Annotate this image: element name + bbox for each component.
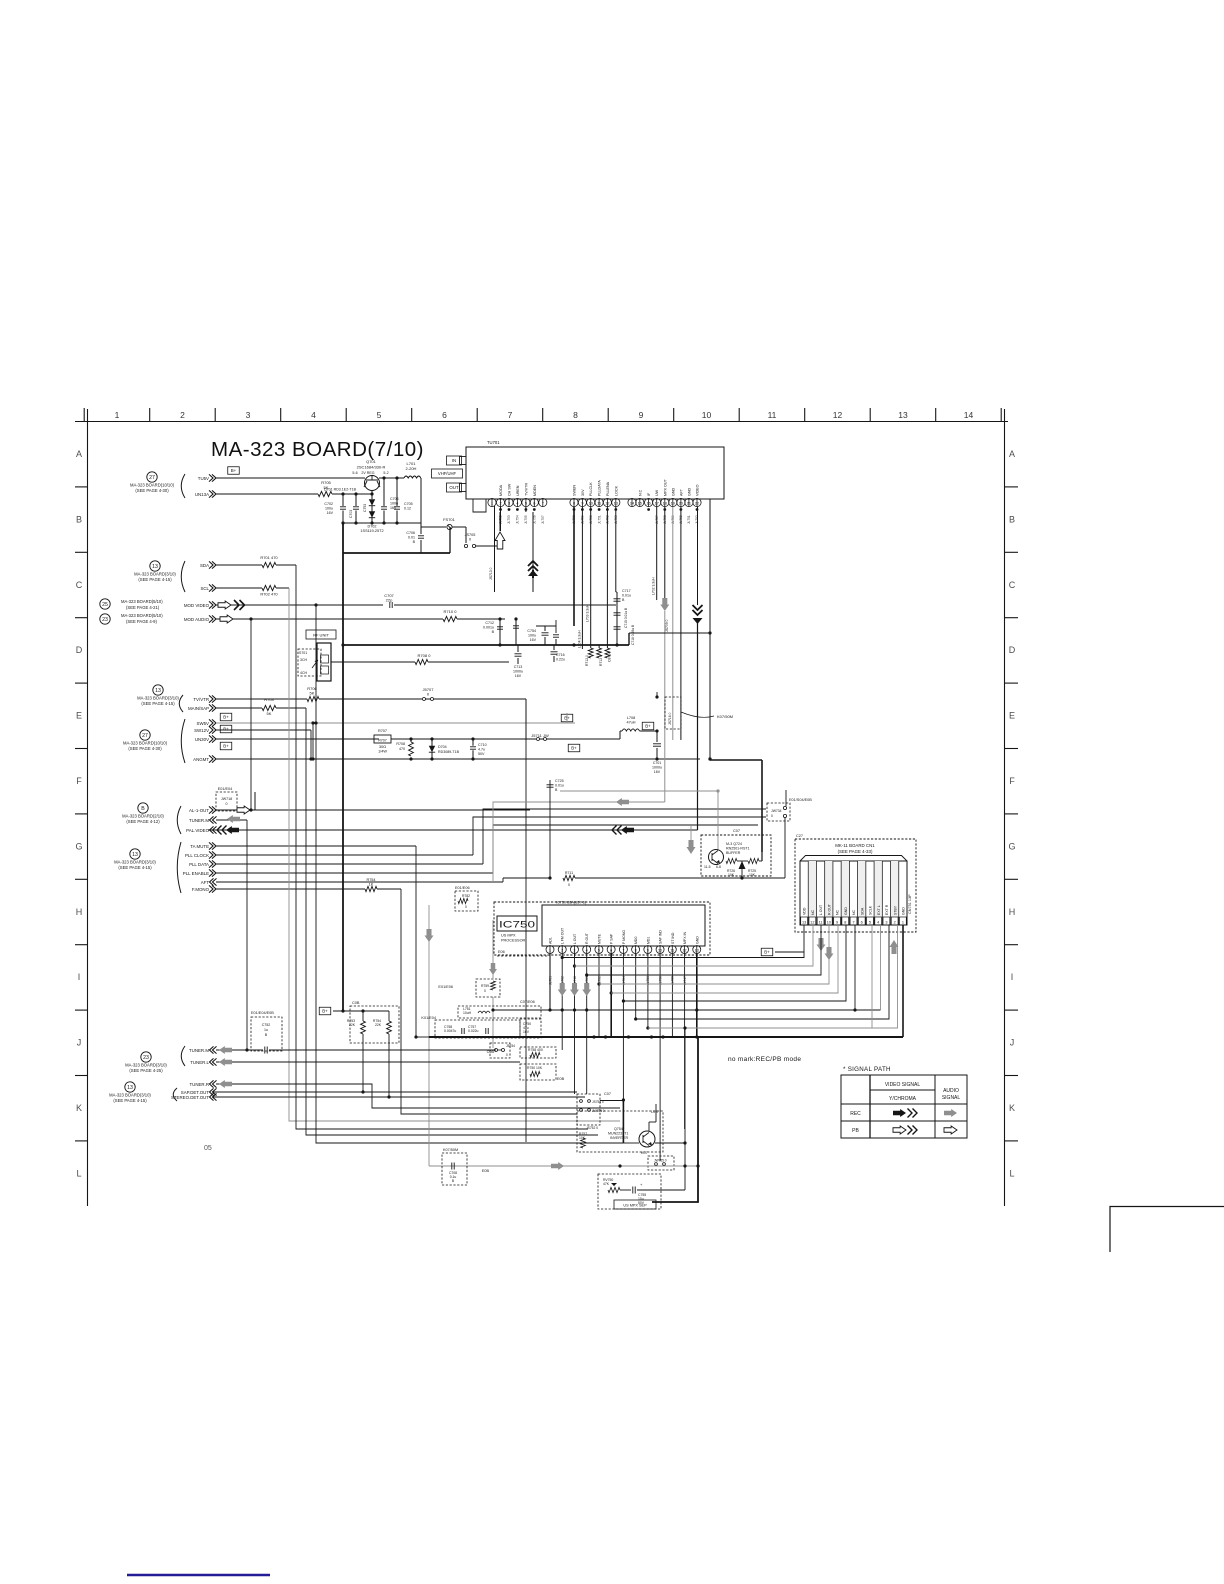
wire tuner pin9 drop [581, 507, 583, 649]
svg-text:A: A [76, 449, 82, 459]
wire TV/VTR drop [525, 699, 527, 740]
tuner TU701 pin 17 [653, 498, 661, 506]
svg-text:R708 0: R708 0 [418, 653, 432, 658]
svg-text:D: D [76, 645, 83, 655]
audio arrow on MOD AUDIO [220, 615, 233, 623]
svg-text:D702: D702 [367, 525, 376, 529]
tuner TU701 pin 6 [530, 498, 538, 506]
svg-text:(SEE PAGE 4-9): (SEE PAGE 4-9) [126, 619, 157, 624]
svg-text:9: 9 [836, 920, 838, 924]
wire tuner pin13 drop [615, 507, 617, 592]
svg-text:0.0047u: 0.0047u [444, 1029, 456, 1033]
capacitor C716 [553, 645, 555, 650]
wire Q701 collector to L701 [379, 477, 404, 479]
svg-text:0: 0 [771, 814, 773, 818]
svg-text:UW: UW [655, 489, 659, 496]
svg-text:10K: 10K [749, 873, 756, 877]
svg-text:2-20H: 2-20H [406, 466, 417, 471]
audio arrow right gray [551, 1162, 564, 1170]
svg-text:2: 2 [180, 410, 185, 420]
capacitor C715 [614, 612, 621, 614]
svg-text:D701 RD3.1E2-T1B: D701 RD3.1E2-T1B [324, 488, 357, 492]
svg-text:+: + [640, 1182, 643, 1187]
connector CN751 pin 2 [890, 861, 892, 925]
svg-text:P MONO: P MONO [622, 930, 626, 944]
svg-text:0: 0 [465, 905, 467, 909]
svg-text:23: 23 [143, 1055, 149, 1061]
svg-text:B: B [76, 514, 82, 524]
svg-text:K07: K07 [641, 1151, 648, 1155]
net label B+ SW12V [220, 725, 232, 733]
wire STEREO.DET.OUT [212, 1096, 585, 1098]
wire TU5V [216, 477, 365, 479]
svg-text:AFT: AFT [679, 488, 683, 496]
transistor Q701 [365, 476, 380, 491]
svg-text:(SEE PAGE 4-12): (SEE PAGE 4-12) [126, 819, 160, 824]
capacitor C719 [515, 619, 517, 645]
svg-text:14: 14 [964, 410, 974, 420]
svg-text:C752: C752 [262, 1023, 271, 1027]
svg-text:E01/E06: E01/E06 [455, 886, 470, 890]
resistor R707 box [374, 735, 391, 743]
svg-text:R OUT: R OUT [585, 932, 589, 944]
mid ground bus [343, 644, 629, 646]
svg-text:NC: NC [836, 909, 840, 915]
svg-text:R711: R711 [565, 871, 573, 875]
svg-text:STEREO.DET.OUT: STEREO.DET.OUT [171, 1095, 209, 1100]
net label B+ TU5V [228, 467, 240, 475]
svg-text:JS713 0: JS713 0 [489, 567, 493, 580]
resistor R705 [318, 491, 332, 496]
svg-text:R712 0: R712 0 [585, 655, 589, 666]
svg-text:4.7u: 4.7u [478, 748, 485, 752]
op-amp IC750 pin 12 [681, 946, 689, 954]
border frame left line [87, 409, 89, 1206]
svg-text:L703 3.3uH: L703 3.3uH [586, 604, 590, 622]
svg-text:BUFFER: BUFFER [726, 851, 741, 855]
connector CN751 pin 4 [873, 861, 875, 925]
svg-text:B: B [492, 630, 495, 634]
connector CN751 pin 11 [815, 861, 817, 925]
wire bus drop 4 [316, 605, 623, 1143]
capacitor C750 box [520, 1019, 541, 1038]
svg-text:MPX IN: MPX IN [683, 931, 687, 944]
op-amp IC750 pin 3 [570, 946, 578, 954]
resistor R725 [748, 858, 759, 863]
wire MOD VIDEO [216, 604, 383, 606]
svg-text:0: 0 [469, 538, 471, 542]
wire tuner pin8 drop heavy [573, 507, 575, 626]
svg-text:R754: R754 [366, 878, 375, 882]
capacitor C701 [655, 729, 658, 732]
svg-text:12: 12 [833, 410, 843, 420]
net label B+ CN751 [761, 948, 773, 956]
svg-text:50V: 50V [478, 752, 485, 756]
resistor R753 [362, 1011, 364, 1021]
wire SW5V drop [312, 723, 314, 759]
gray line through R759 [492, 920, 494, 979]
svg-text:B: B [555, 788, 558, 792]
resistor R754-22K [388, 1011, 390, 1021]
switch RF UNIT [306, 630, 336, 639]
wire IC750 pin4 drop [586, 954, 588, 1094]
footer blue rule [127, 1574, 270, 1576]
transistor Q724 [709, 850, 724, 865]
svg-text:9: 9 [639, 410, 644, 420]
wire TUNER.L lower [216, 1061, 520, 1063]
svg-text:MA-323 BOARD(3/10): MA-323 BOARD(3/10) [114, 860, 156, 865]
wire R708 line [331, 661, 415, 663]
op-amp IC750 outline [494, 902, 710, 955]
svg-text:PLL ENABLE: PLL ENABLE [183, 871, 209, 876]
capacitor C754 [544, 626, 546, 631]
svg-text:R758 400: R758 400 [528, 1048, 543, 1052]
connector CN751 pin 3 [881, 861, 883, 925]
svg-text:E01/E06: E01/E06 [438, 985, 453, 989]
svg-text:JS705: JS705 [465, 533, 476, 537]
svg-text:SW5V: SW5V [197, 721, 210, 726]
wire E-row corner to Q724 [710, 759, 762, 761]
gray AFT return line [493, 802, 665, 882]
svg-text:1SS119-25T2: 1SS119-25T2 [360, 529, 383, 533]
svg-text:0: 0 [226, 802, 228, 806]
tuner TU701 pin 20 [677, 498, 685, 506]
legend PB audio arrow [944, 1126, 957, 1134]
op-amp IC750 pin 1 [546, 946, 554, 954]
svg-text:B+: B+ [223, 744, 229, 749]
svg-text:100u: 100u [528, 634, 536, 638]
svg-text:IC750 88A(837-6): IC750 88A(837-6) [556, 901, 587, 905]
wire tuner pin17 drop [656, 507, 658, 600]
svg-text:5-2: 5-2 [383, 471, 388, 475]
svg-text:B: B [452, 1179, 455, 1183]
svg-text:VIDEO: VIDEO [696, 484, 700, 496]
resistor R710 [443, 616, 457, 621]
svg-text:E01/S04/E0B: E01/S04/E0B [789, 798, 812, 802]
wire tuner pin18 drop JS709 [664, 507, 666, 598]
wire tuner pin22 long drop [709, 499, 711, 760]
svg-text:VHF/UHF: VHF/UHF [438, 471, 457, 476]
svg-text:L FM OUT: L FM OUT [561, 927, 565, 944]
resistor R708 [409, 742, 414, 756]
svg-text:13: 13 [127, 1085, 133, 1091]
wire TUNER.M upper [216, 819, 247, 821]
svg-text:NC: NC [811, 909, 815, 915]
svg-text:C718 0.05u B: C718 0.05u B [631, 624, 635, 645]
svg-text:5: 5 [377, 410, 382, 420]
wire IC750 pin12 drop [684, 954, 686, 1129]
wire PLL DATA [216, 863, 483, 865]
svg-text:R750 10K: R750 10K [527, 1066, 543, 1070]
svg-text:5K: 5K [310, 691, 315, 696]
net label B+ lower [319, 1007, 331, 1015]
svg-text:I: I [78, 972, 81, 982]
svg-text:E06: E06 [498, 950, 505, 954]
svg-text:27: 27 [149, 475, 155, 481]
svg-text:UN30V: UN30V [195, 737, 209, 742]
svg-text:PLLENA: PLLENA [606, 481, 610, 496]
svg-text:NC: NC [852, 909, 856, 915]
wire y1100 [600, 1100, 623, 1102]
tuner shield ground loop [473, 499, 486, 512]
svg-text:R782: R782 [462, 894, 470, 898]
wire IC750 pin5 drop [598, 954, 600, 1037]
gray feed to Q724 base [560, 790, 718, 792]
wire PLL DATA riser [483, 809, 766, 864]
svg-text:(SEE PAGE 4-30): (SEE PAGE 4-30) [135, 488, 169, 493]
svg-text:LOCK: LOCK [614, 485, 618, 496]
svg-text:MOD AUDIO: MOD AUDIO [184, 617, 210, 622]
legend table [841, 1075, 967, 1138]
svg-text:C753: C753 [363, 504, 367, 512]
svg-text:C0B: C0B [487, 1050, 495, 1054]
wire IC750 pin9 drop [647, 954, 649, 1028]
svg-text:16V: 16V [523, 1030, 530, 1034]
svg-text:30Ω: 30Ω [379, 745, 386, 749]
tuner pin stubs [491, 499, 493, 507]
heavy return line right [652, 1038, 698, 1202]
PB video arrow on PAL.VIDEO [226, 826, 239, 834]
svg-text:J5711 JW: J5711 JW [531, 733, 549, 738]
svg-text:L702 3.3uH: L702 3.3uH [652, 577, 656, 595]
svg-text:7: 7 [508, 410, 513, 420]
svg-text:F: F [1009, 776, 1015, 786]
wire cap stack to bus [616, 640, 618, 645]
svg-text:4: 4 [311, 410, 316, 420]
svg-text:TA MUTE: TA MUTE [190, 844, 209, 849]
svg-text:MA-323 BOARD(5/10): MA-323 BOARD(5/10) [121, 613, 163, 618]
svg-text:MDEN: MDEN [533, 485, 537, 496]
svg-text:10uH: 10uH [463, 1011, 472, 1015]
svg-text:MA-323 BOARD(5/10): MA-323 BOARD(5/10) [121, 599, 163, 604]
svg-text:MPX OUT: MPX OUT [663, 478, 667, 496]
REC video arrow on MOD VIDEO [218, 601, 231, 609]
resistor R750 box [520, 1064, 556, 1080]
svg-text:7: 7 [852, 920, 854, 924]
svg-text:C07: C07 [733, 829, 740, 833]
tuner VHF/UHF connector [432, 469, 463, 478]
border frame top ruler [75, 421, 1008, 423]
svg-text:22K: 22K [375, 1023, 382, 1027]
wire IC750 pin1 drop [549, 954, 551, 1010]
svg-text:GND: GND [671, 487, 675, 496]
svg-text:L0B: L0B [651, 1110, 658, 1114]
wire Q754 emitter [655, 1142, 685, 1144]
svg-text:C702: C702 [324, 502, 333, 506]
svg-text:MA-323 BOARD(3/10): MA-323 BOARD(3/10) [125, 1063, 167, 1068]
svg-text:1K: 1K [369, 883, 374, 887]
connector callout MA-323 BOARD(3/10) [141, 1052, 151, 1062]
svg-text:0.01u: 0.01u [555, 784, 564, 788]
svg-text:MODA: MODA [499, 484, 503, 496]
wire PLL ENABLE riser [493, 825, 758, 873]
svg-text:PLLDATA: PLLDATA [598, 480, 602, 496]
op-amp IC750 pin 13 [693, 946, 701, 954]
svg-text:B+: B+ [764, 950, 770, 955]
svg-text:3: 3 [885, 920, 887, 924]
svg-text:C703: C703 [349, 510, 353, 518]
wire C725 branch [549, 780, 551, 878]
svg-text:JS752 0: JS752 0 [586, 1126, 598, 1130]
svg-text:INVERTER: INVERTER [610, 1136, 629, 1140]
svg-text:C725: C725 [555, 779, 564, 783]
capacitor C712 [499, 619, 501, 645]
svg-text:MA-323 BOARD(7/10): MA-323 BOARD(7/10) [211, 438, 424, 461]
svg-text:JS716 0: JS716 0 [668, 712, 672, 725]
svg-text:JW755 0: JW755 0 [654, 1159, 667, 1163]
svg-text:22K: 22K [349, 1023, 356, 1027]
svg-text:B: B [413, 540, 416, 544]
wire MOD AUDIO drop to AL-1-OUT [250, 619, 252, 810]
PB video arrow mid PAL.VIDEO [621, 826, 634, 834]
resistor R703 [262, 705, 276, 710]
svg-text:IC750: IC750 [499, 920, 535, 931]
svg-text:PLL CLOCK: PLL CLOCK [185, 853, 209, 858]
svg-text:0.022u: 0.022u [468, 1029, 478, 1033]
connector callout MOD AUDIO [100, 614, 110, 624]
wire tuner pin19 drop [672, 507, 674, 740]
wire IC750 pin13 GND drop [696, 954, 698, 1037]
wire Q754 collector [648, 1122, 650, 1131]
svg-text:8: 8 [573, 410, 578, 420]
svg-text:1000u: 1000u [652, 766, 662, 770]
wire common net y1010 [493, 1009, 881, 1011]
svg-text:JL757: JL757 [541, 515, 545, 524]
svg-text:K: K [1009, 1103, 1015, 1113]
op-amp IC750 pin 4 [583, 946, 591, 954]
svg-text:TU5V: TU5V [198, 476, 209, 481]
tuner OUT connector [447, 483, 462, 492]
svg-text:(SEE PAGE 4-15): (SEE PAGE 4-15) [138, 577, 172, 582]
svg-text:TV/VTR: TV/VTR [193, 697, 209, 702]
tuner TU701 pin 9 [578, 498, 586, 506]
svg-text:13: 13 [802, 920, 806, 924]
svg-text:IN: IN [452, 458, 456, 463]
svg-text:E: E [76, 711, 82, 721]
net label B+ L708 [642, 722, 654, 730]
svg-text:PLL DATA: PLL DATA [189, 862, 209, 867]
svg-text:Y/CHROMA: Y/CHROMA [889, 1096, 917, 1102]
wire PLL ENABLE [216, 872, 493, 874]
svg-text:16V: 16V [654, 770, 661, 774]
svg-text:0: 0 [506, 1053, 508, 1057]
capacitor C707 [389, 602, 391, 608]
connector CN751 pin 13 [801, 917, 808, 925]
svg-text:C710: C710 [478, 743, 487, 747]
wire TV/VTR long drop [525, 740, 527, 1142]
gray arrow up CN751 pin2 [890, 940, 899, 954]
connector callout MA-323 BOARD(10/10) [140, 730, 150, 740]
svg-text:1u: 1u [264, 1028, 268, 1032]
svg-text:JL753: JL753 [507, 515, 511, 524]
wire fan CN751 pin 8 [623, 925, 846, 1001]
wire AFT riser [502, 878, 504, 882]
svg-text:AUDIO: AUDIO [943, 1088, 959, 1094]
svg-text:0: 0 [568, 883, 570, 887]
svg-text:S701: S701 [299, 651, 307, 655]
svg-text:L708: L708 [627, 716, 635, 720]
power cluster ground rail [343, 522, 421, 524]
tuner TU701 pin 13 [612, 498, 620, 506]
wire UN13A [216, 493, 318, 495]
svg-text:(SEE PAGE 4-30): (SEE PAGE 4-30) [128, 746, 162, 751]
connector CN751 pin 7 [848, 861, 850, 925]
tuner TU701 pin 7 [539, 498, 547, 506]
svg-text:PLLCLK: PLLCLK [589, 482, 593, 496]
tuner TU701 pin 2 [496, 498, 504, 506]
jumper JS716 box [665, 697, 681, 729]
wire fan CN751 pin 3 [636, 925, 889, 1019]
svg-text:0.01: 0.01 [408, 536, 415, 540]
svg-text:K07/50M: K07/50M [717, 714, 733, 719]
wire ANGMT [216, 758, 700, 760]
tuner TU701 pin 12 [603, 498, 611, 506]
fuse FS701 [421, 526, 446, 528]
wire MOD AUDIO [216, 618, 443, 620]
svg-text:TUNER.L: TUNER.L [190, 1060, 209, 1065]
svg-text:G: G [1008, 841, 1015, 851]
capacitor C725 [547, 784, 554, 786]
svg-text:PROCESSOR: PROCESSOR [501, 939, 526, 943]
svg-text:C712: C712 [485, 621, 494, 625]
bottom-right corner mark [1110, 1207, 1224, 1253]
svg-text:10: 10 [827, 920, 831, 924]
op-amp IC750 pin 8 [632, 946, 640, 954]
wire JW734 drop [785, 790, 787, 806]
svg-text:6-8: 6-8 [716, 865, 721, 869]
svg-text:B+: B+ [322, 1009, 328, 1014]
wire PLL CLOCK [216, 854, 473, 856]
svg-text:SCLK: SCLK [869, 905, 873, 915]
svg-text:EXT L: EXT L [877, 905, 881, 915]
wire tuner pin2 drop [500, 507, 502, 531]
power bus vertical [342, 553, 344, 1011]
gray arrow pin2 [558, 983, 567, 996]
svg-text:GND: GND [844, 907, 848, 915]
wire SAP.DET.OUT [212, 1091, 577, 1093]
gray PB audio line [429, 1165, 698, 1167]
svg-text:1/4W: 1/4W [378, 750, 387, 754]
wire IC750 pin6 drop heavy [610, 954, 612, 1037]
svg-text:B: B [141, 806, 145, 812]
svg-text:E0B: E0B [557, 1077, 565, 1081]
legend REC video arrow [893, 1109, 906, 1117]
svg-text:13: 13 [152, 564, 158, 570]
svg-text:R OUT: R OUT [827, 903, 831, 915]
wire fan CN751 pin 12 [575, 925, 814, 966]
svg-text:JL756: JL756 [533, 515, 537, 524]
svg-text:100u: 100u [325, 507, 333, 511]
wire F.MONO drop [401, 889, 577, 1114]
wire TA MUTE [216, 845, 416, 847]
PB arrow up tuner supply [499, 546, 501, 549]
svg-text:JL751: JL751 [687, 515, 691, 524]
svg-text:05: 05 [204, 1145, 212, 1152]
connector callout MA-323 BOARD(2/10) [138, 803, 148, 813]
svg-text:SIGNAL: SIGNAL [942, 1095, 961, 1101]
svg-text:5-6: 5-6 [352, 471, 357, 475]
svg-text:H: H [76, 907, 83, 917]
svg-text:JW718: JW718 [221, 797, 232, 801]
svg-text:REC: REC [850, 1111, 861, 1117]
audio arrow TUNER.R [219, 1080, 232, 1088]
svg-text:25: 25 [102, 602, 108, 608]
svg-text:B+: B+ [231, 468, 237, 473]
wire SCL drop [289, 588, 620, 1121]
gray arrow CN751 pin11 [817, 938, 826, 951]
REC arrow down chevron pin22 [697, 507, 699, 605]
wire Q754 base vertical [684, 1028, 686, 1190]
